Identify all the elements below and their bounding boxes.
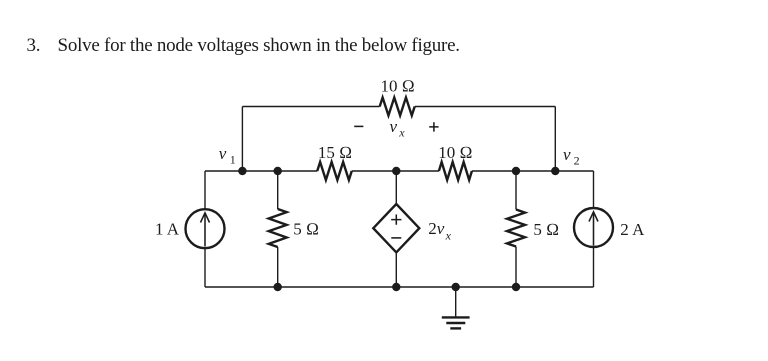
svg-text:Solve for the node voltages sh: Solve for the node voltages shown in the… [58, 35, 460, 56]
svg-text:3.: 3. [27, 35, 41, 56]
svg-text:10 Ω: 10 Ω [438, 143, 472, 162]
svg-text:v: v [563, 145, 571, 164]
svg-text:5 Ω: 5 Ω [293, 220, 319, 239]
svg-text:v: v [219, 144, 227, 163]
svg-text:15 Ω: 15 Ω [318, 143, 352, 162]
svg-text:x: x [445, 229, 452, 243]
svg-text:2: 2 [574, 154, 580, 168]
svg-text:5 Ω: 5 Ω [533, 220, 559, 239]
svg-text:2 A: 2 A [620, 220, 645, 239]
svg-text:v: v [390, 117, 398, 136]
svg-text:1: 1 [230, 153, 236, 167]
svg-text:1 A: 1 A [155, 219, 180, 238]
svg-text:2v: 2v [428, 219, 445, 238]
svg-text:x: x [398, 126, 405, 140]
svg-text:10 Ω: 10 Ω [380, 77, 414, 96]
